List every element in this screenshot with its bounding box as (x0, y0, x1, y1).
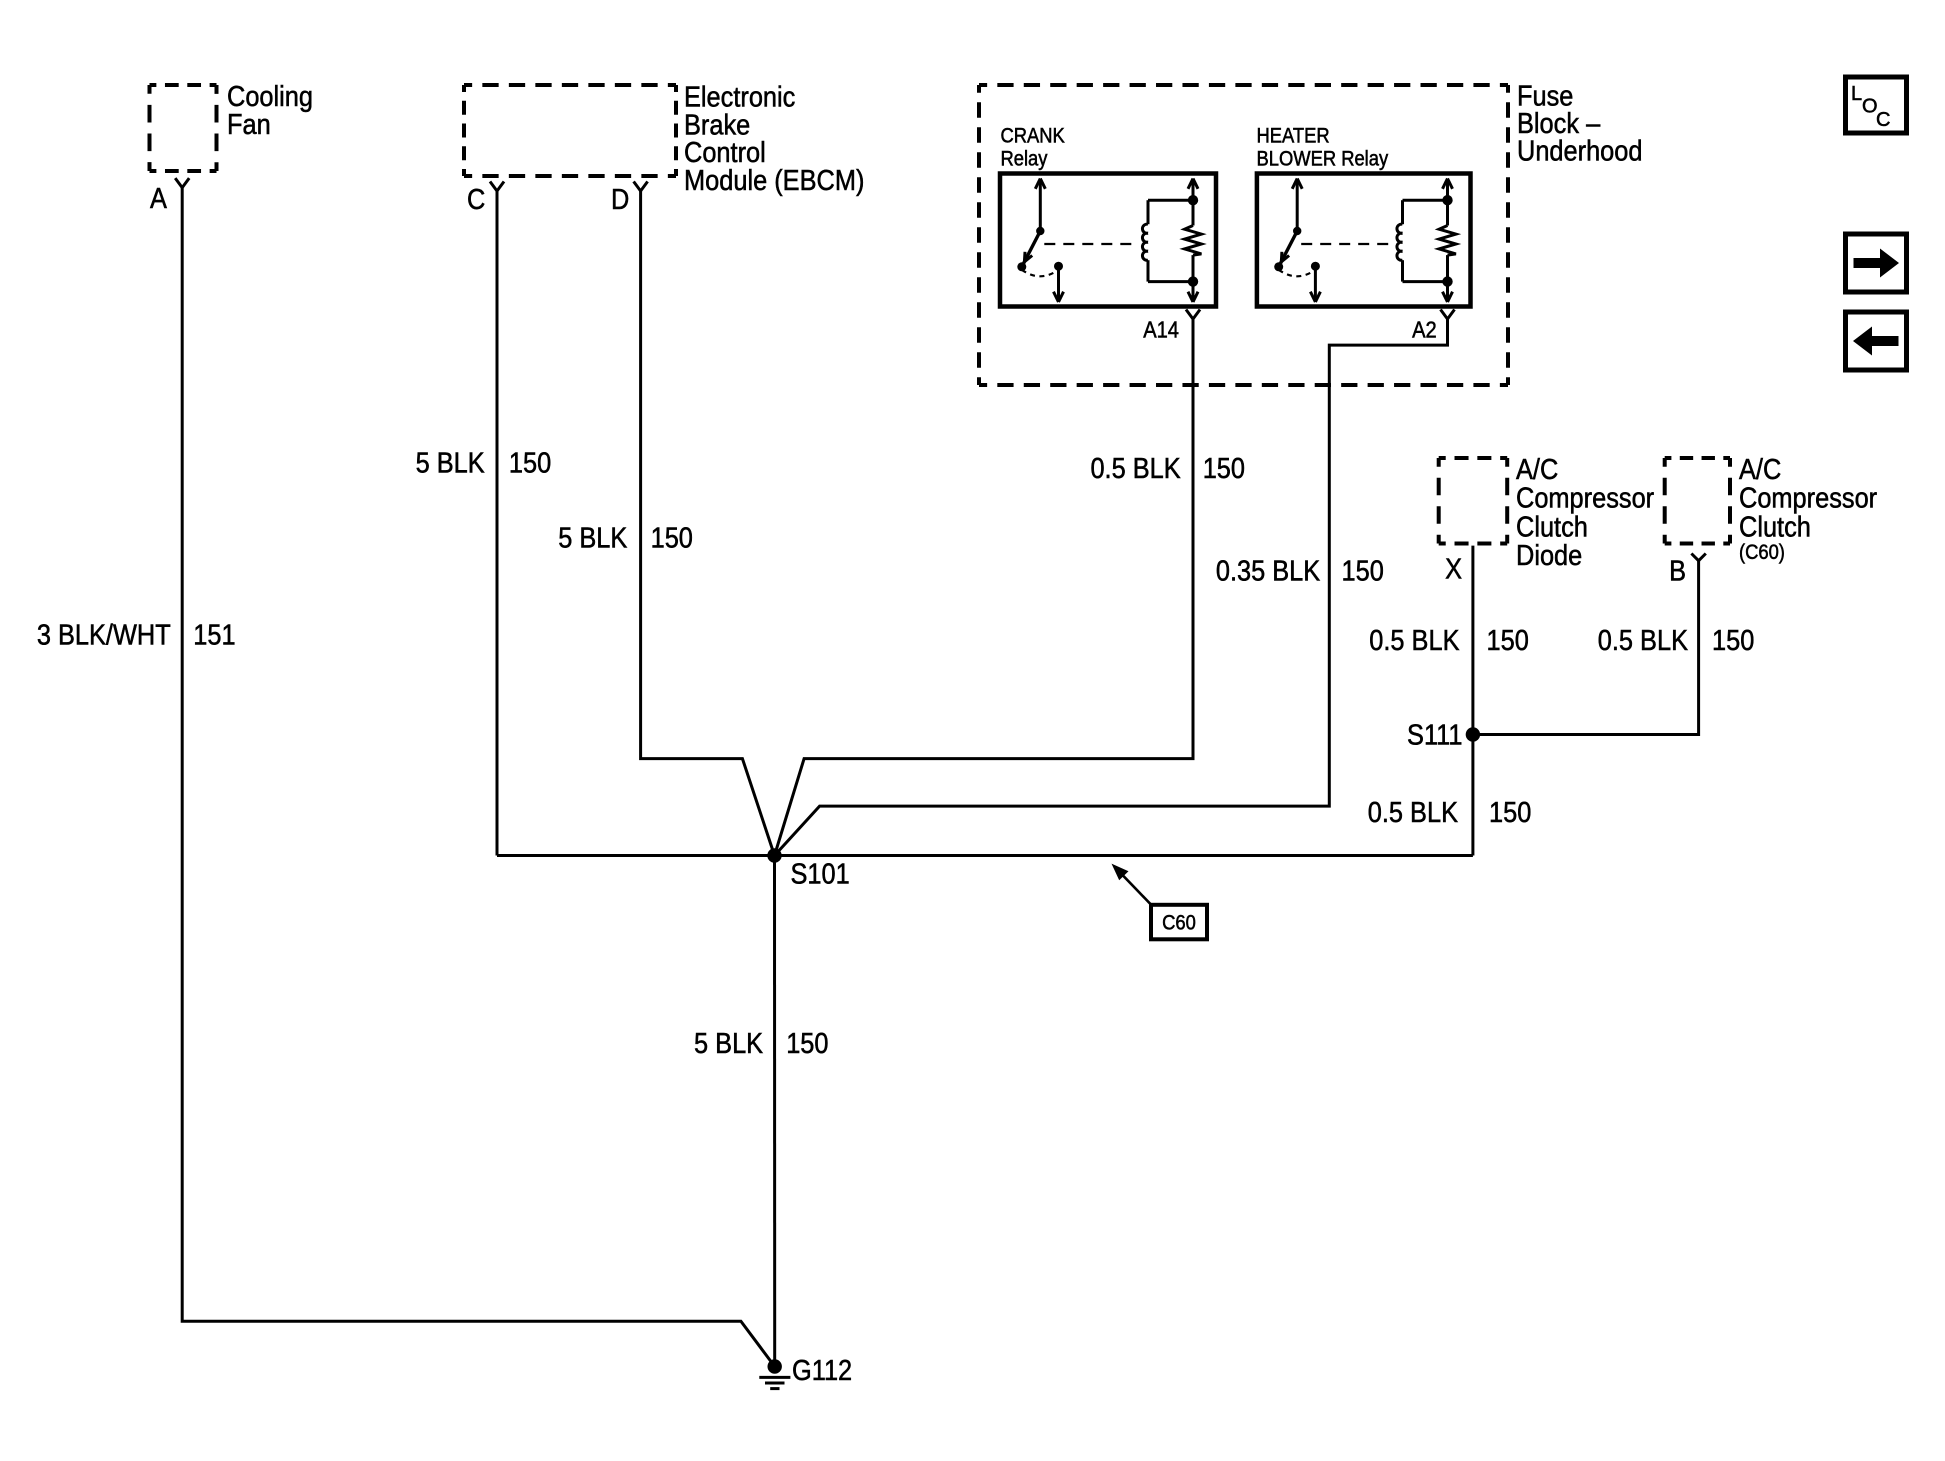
svg-text:150: 150 (1712, 623, 1754, 656)
svg-text:150: 150 (651, 521, 693, 554)
svg-text:5 BLK: 5 BLK (694, 1026, 763, 1059)
svg-text:A2: A2 (1412, 316, 1437, 343)
svg-text:150: 150 (1487, 623, 1529, 656)
svg-text:Diode: Diode (1516, 538, 1582, 571)
svg-text:Relay: Relay (1001, 147, 1048, 170)
svg-text:C: C (1876, 109, 1890, 131)
svg-text:150: 150 (786, 1026, 828, 1059)
svg-text:C60: C60 (1162, 911, 1196, 934)
svg-text:A: A (150, 181, 168, 214)
svg-text:HEATER: HEATER (1257, 124, 1330, 147)
svg-text:BLOWER Relay: BLOWER Relay (1257, 147, 1389, 170)
svg-text:B: B (1669, 554, 1686, 587)
svg-text:151: 151 (193, 618, 235, 651)
svg-text:150: 150 (1342, 554, 1384, 587)
svg-text:S111: S111 (1407, 718, 1462, 751)
svg-text:Module (EBCM): Module (EBCM) (684, 163, 864, 196)
svg-text:D: D (611, 182, 629, 215)
svg-text:0.5 BLK: 0.5 BLK (1598, 623, 1688, 656)
svg-text:L: L (1851, 83, 1862, 105)
svg-text:Clutch: Clutch (1739, 510, 1811, 543)
svg-text:0.5 BLK: 0.5 BLK (1090, 451, 1180, 484)
svg-text:0.5 BLK: 0.5 BLK (1368, 795, 1458, 828)
svg-text:0.35 BLK: 0.35 BLK (1216, 554, 1320, 587)
svg-text:150: 150 (1203, 451, 1245, 484)
svg-text:150: 150 (1489, 795, 1531, 828)
svg-text:150: 150 (509, 446, 551, 479)
svg-text:(C60): (C60) (1739, 541, 1785, 564)
svg-text:S101: S101 (791, 857, 850, 890)
svg-text:X: X (1445, 552, 1462, 585)
svg-text:Fan: Fan (227, 107, 271, 140)
svg-text:0.5 BLK: 0.5 BLK (1369, 623, 1459, 656)
svg-text:3 BLK/WHT: 3 BLK/WHT (37, 618, 171, 651)
svg-text:5 BLK: 5 BLK (558, 521, 627, 554)
svg-text:C: C (467, 182, 485, 215)
svg-text:G112: G112 (792, 1353, 852, 1386)
svg-text:CRANK: CRANK (1001, 124, 1065, 147)
svg-text:5 BLK: 5 BLK (416, 446, 485, 479)
svg-text:Underhood: Underhood (1517, 134, 1643, 167)
svg-text:A14: A14 (1143, 316, 1179, 343)
